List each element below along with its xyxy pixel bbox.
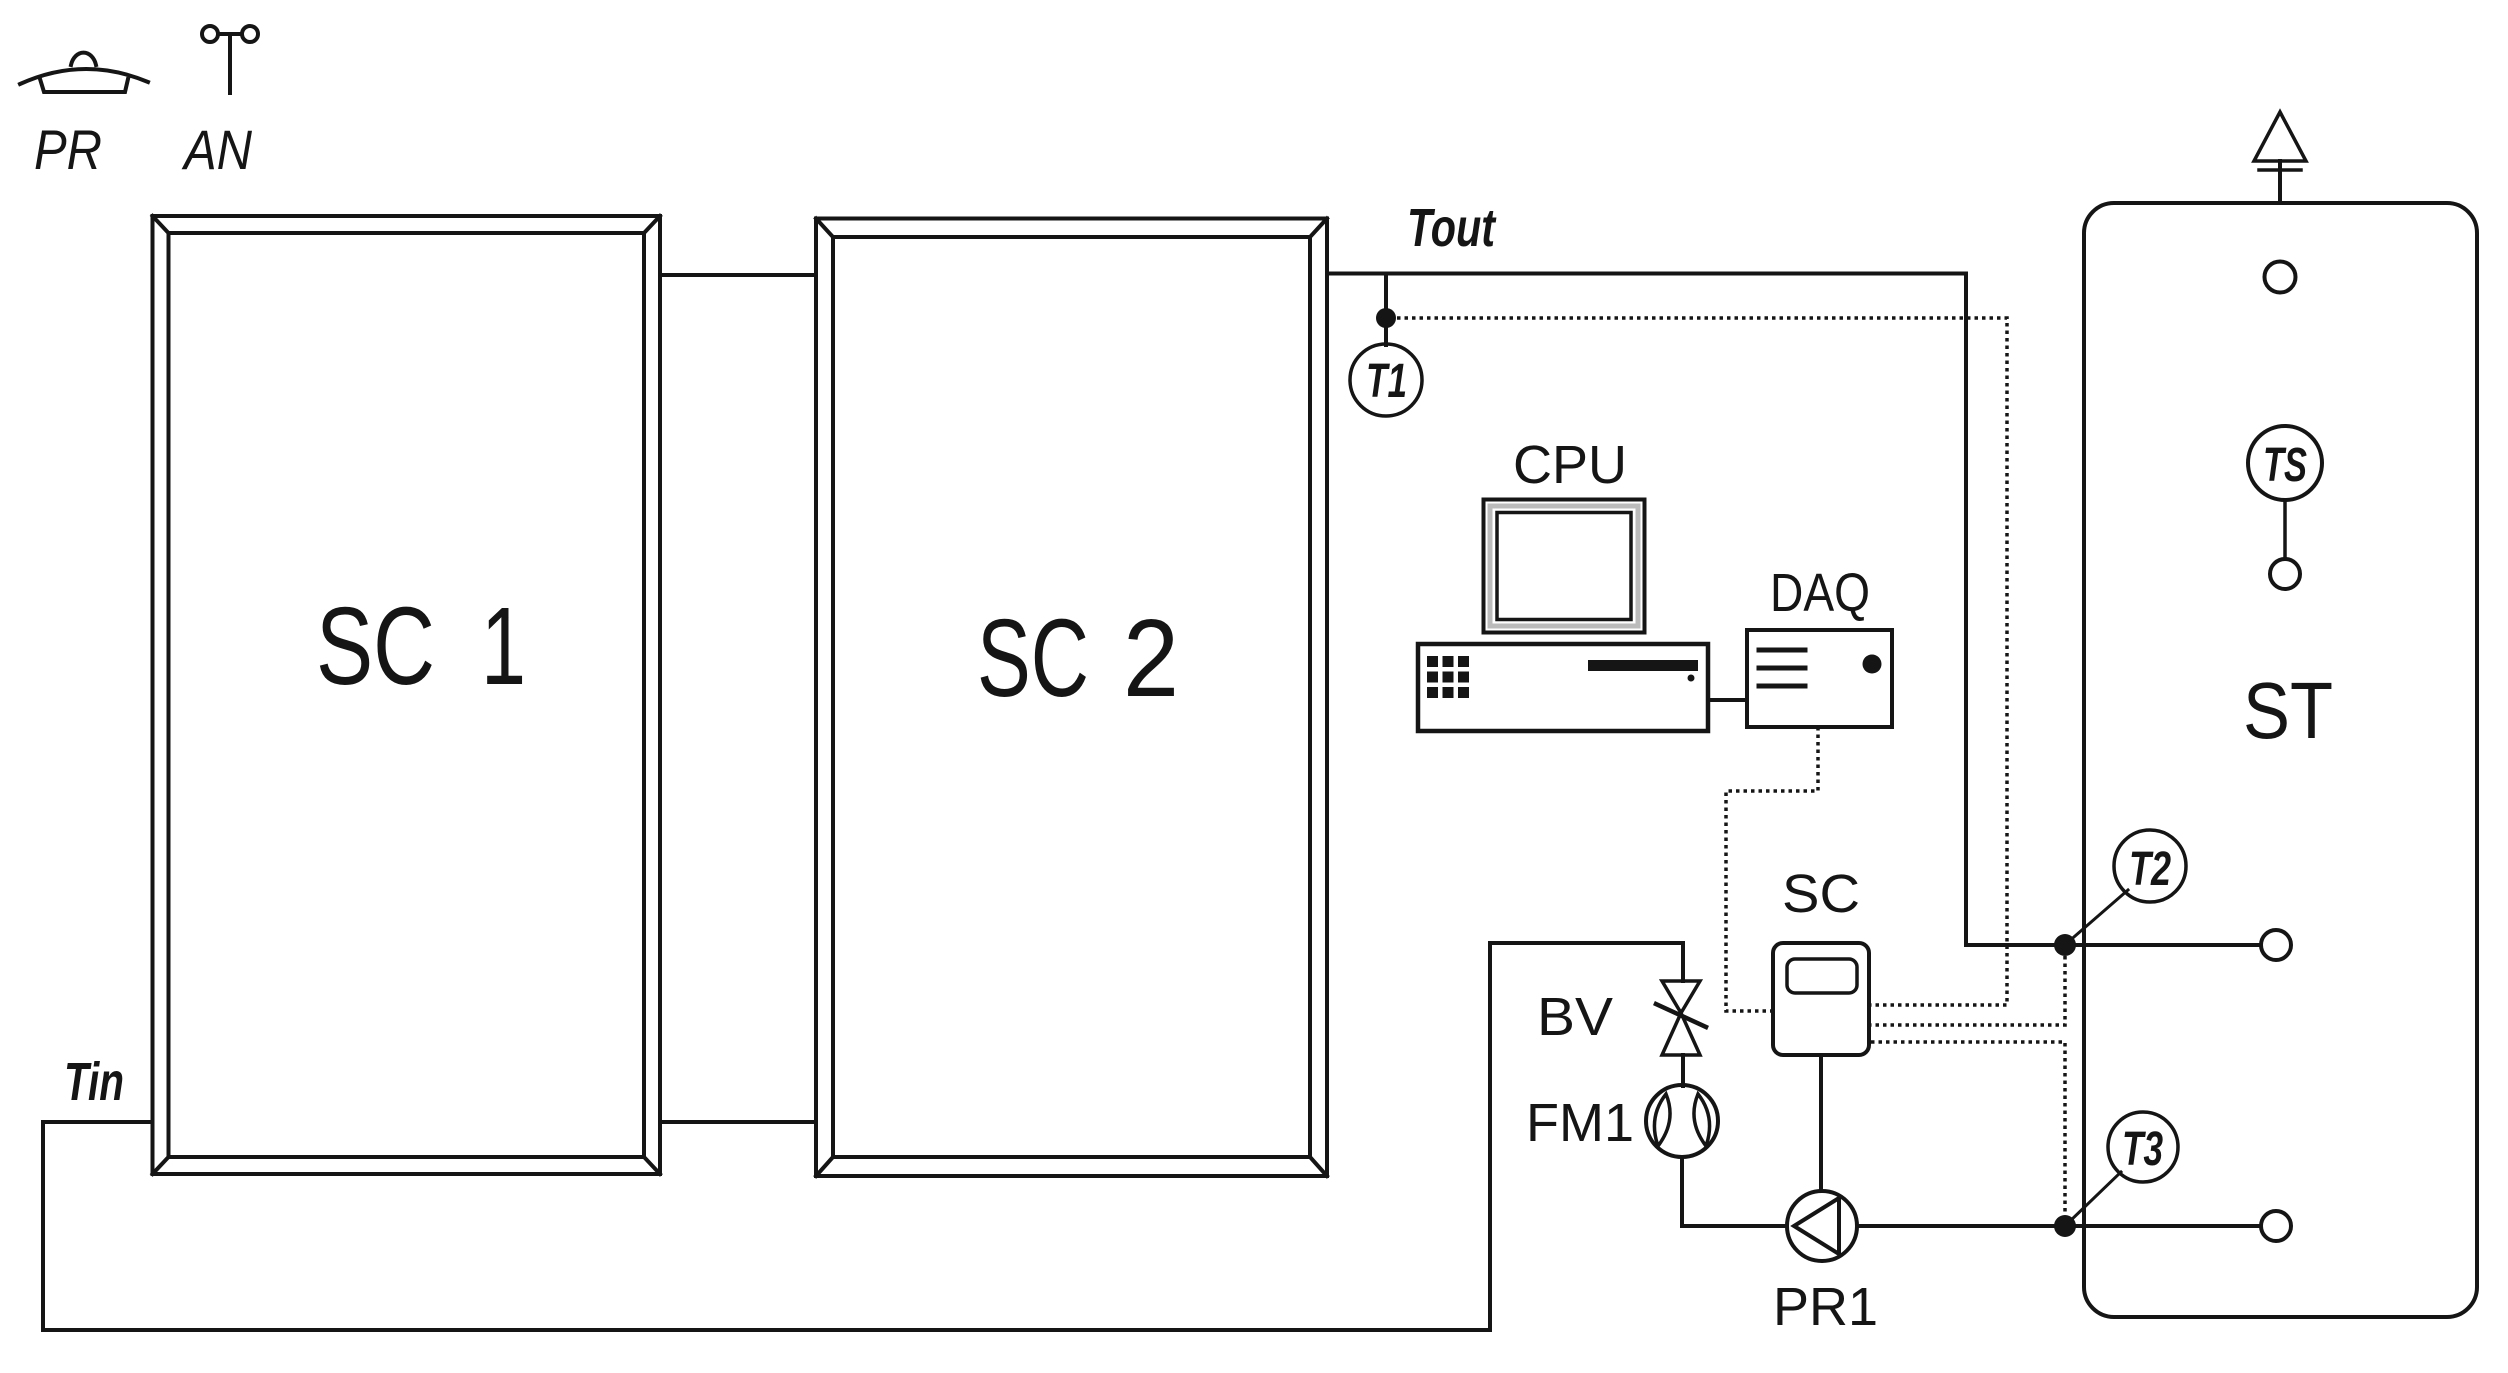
svg-text:BV: BV <box>1537 987 1613 1047</box>
signal wire DAQ to SC (dotted) <box>1726 727 1818 1011</box>
node junction T2 <box>2054 934 2076 956</box>
controller SC box <box>1773 943 1869 1055</box>
signal wire T3 to SC (dotted) <box>1871 1042 2065 1215</box>
svg-text:SC: SC <box>316 585 435 708</box>
wire top connector SC1-SC2 <box>660 273 816 277</box>
svg-text:T1: T1 <box>1366 355 1407 408</box>
signal wire T2 to SC (dotted) <box>1871 956 2065 1025</box>
svg-text:2: 2 <box>1123 597 1179 720</box>
solar collector SC2 <box>816 219 1327 1177</box>
svg-text:FM1: FM1 <box>1526 1093 1634 1153</box>
svg-text:AN: AN <box>181 118 252 181</box>
sensor T3 <box>2067 1112 2178 1224</box>
sensor TS <box>2248 426 2322 589</box>
pyranometer PR symbol <box>20 53 148 92</box>
computer CPU case <box>1418 644 1708 731</box>
air vent on tank <box>2254 112 2306 203</box>
tank T2 port <box>2261 930 2291 960</box>
computer CPU monitor <box>1484 500 1645 633</box>
svg-text:ST: ST <box>2243 666 2333 755</box>
storage tank ST <box>2084 203 2477 1317</box>
data acquisition DAQ box <box>1747 630 1892 727</box>
svg-text:TS: TS <box>2263 439 2307 492</box>
svg-text:PR: PR <box>34 118 102 181</box>
svg-text:Tout: Tout <box>1407 198 1497 258</box>
wire Tout pipe <box>1327 274 2261 946</box>
svg-text:PR1: PR1 <box>1773 1277 1878 1337</box>
wire FM1 to pump <box>1682 1157 1787 1226</box>
sensor T1 <box>1350 344 1422 416</box>
wire pump outlet to tank <box>1857 1224 2261 1228</box>
anemometer AN symbol <box>202 26 258 93</box>
tank T3 port <box>2261 1211 2291 1241</box>
svg-text:SC: SC <box>977 597 1089 720</box>
node junction T3 <box>2054 1215 2076 1237</box>
signal wire T1 to SC (dotted) <box>1397 318 2007 1005</box>
solar collector SC1 <box>153 216 661 1174</box>
svg-text:1: 1 <box>481 585 526 708</box>
svg-text:CPU: CPU <box>1513 435 1627 495</box>
svg-text:Tin: Tin <box>64 1052 124 1112</box>
sensor T2 <box>2067 830 2186 943</box>
wire Tin return loop <box>43 943 1683 1330</box>
tank top port <box>2265 262 2296 293</box>
pump PR1 <box>1787 1191 1857 1261</box>
svg-text:DAQ: DAQ <box>1770 563 1870 623</box>
valve BV <box>1656 981 1706 1055</box>
svg-text:T2: T2 <box>2129 843 2171 896</box>
wire CPU to DAQ <box>1708 698 1747 702</box>
wire SC to pump PR1 <box>1819 1055 1823 1191</box>
svg-text:SC: SC <box>1782 864 1860 924</box>
svg-text:T3: T3 <box>2122 1123 2163 1176</box>
wire BV to FM1 <box>1681 1055 1685 1086</box>
wire bottom connector SC1-SC2 <box>660 1120 816 1124</box>
flow meter FM1 <box>1646 1085 1718 1157</box>
node junction T1 tap <box>1376 274 1396 346</box>
